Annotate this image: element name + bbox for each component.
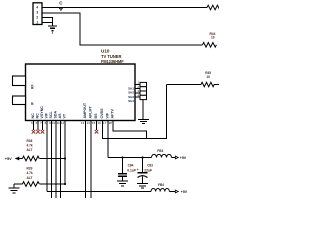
svg-text:FM1236HMF: FM1236HMF <box>101 59 124 64</box>
svg-text:18: 18 <box>108 121 112 125</box>
svg-text:4.7k: 4.7k <box>27 144 33 148</box>
SH pin stubs and numbers 1 2 3 4 <box>135 84 140 97</box>
ground (C84) <box>117 181 128 186</box>
svg-text:SCL: SCL <box>49 111 53 119</box>
bottom-right pin name labels inside IC <box>83 102 115 118</box>
svg-text:C83: C83 <box>147 164 153 168</box>
node junction C83 <box>141 156 143 158</box>
node junction C84 <box>121 156 123 158</box>
svg-text:R39: R39 <box>27 167 33 171</box>
svg-text:10: 10 <box>211 36 215 40</box>
svg-text:0.1uF: 0.1uF <box>127 168 136 172</box>
svg-text:C84: C84 <box>128 163 134 167</box>
svg-text:13: 13 <box>81 121 85 125</box>
wire +5V bottom rail <box>47 191 151 193</box>
wire connector pins 2,1 to ground <box>42 18 53 26</box>
svg-text:SH4: SH4 <box>128 99 134 103</box>
wire from connector pin 3 to resistor R44 <box>43 13 203 45</box>
svg-text:SDA: SDA <box>53 111 57 119</box>
wire pin18 jog to R45 net <box>113 121 147 139</box>
svg-text:U10: U10 <box>101 49 110 54</box>
pin stubs with no-connect (left three) <box>34 121 43 130</box>
svg-text:1: 1 <box>36 21 38 25</box>
svg-text:FB4: FB4 <box>158 183 164 187</box>
wire pin12 down to R39 row <box>64 121 66 185</box>
svg-text:2: 2 <box>36 16 38 20</box>
svg-text:AFTV: AFTV <box>110 109 114 119</box>
svg-text:4.7k: 4.7k <box>27 171 33 175</box>
svg-text:14: 14 <box>86 121 90 125</box>
wire pin15 stub to X <box>96 121 98 130</box>
bottom pin number digits <box>31 121 112 125</box>
ground (SH shield) <box>138 119 149 123</box>
no-connect X marks (red) <box>32 130 45 134</box>
net label C <box>59 1 63 11</box>
resistor R45 with wire <box>167 71 220 87</box>
svg-text:NC: NC <box>35 113 39 119</box>
svg-text:+: + <box>137 168 139 172</box>
svg-text:17: 17 <box>103 121 107 125</box>
wire pin9 down <box>51 121 53 199</box>
wire pin13 down <box>85 121 87 199</box>
svg-text:FB3: FB3 <box>157 149 163 153</box>
ground (connector) <box>48 26 57 33</box>
inductor FB4 <box>151 183 188 194</box>
pin box IF (left) <box>13 96 35 105</box>
bottom-left pin name labels inside IC <box>31 106 67 119</box>
svg-text:VIF: VIF <box>44 112 48 118</box>
ground (R39 left) <box>9 184 20 193</box>
svg-text:22uF: 22uF <box>144 169 152 173</box>
svg-text:VIF: VIF <box>105 112 109 118</box>
svg-text:BS: BS <box>94 113 98 119</box>
wire pin16 jog to R45 net <box>103 85 167 139</box>
svg-text:ALT: ALT <box>27 176 33 180</box>
SH shield pin boxes <box>140 82 147 99</box>
connector J1 <box>33 3 42 25</box>
ground (C83) <box>137 184 148 189</box>
wire pin10 down <box>55 121 57 199</box>
wire net C from connector pin 4 to resistor top right <box>43 7 208 9</box>
svg-text:RF: RF <box>31 84 35 89</box>
svg-text:12: 12 <box>61 121 65 125</box>
svg-text:+5V: +5V <box>180 156 187 160</box>
wire pin11 down <box>60 121 62 199</box>
wire pin14 down <box>90 121 92 199</box>
inductor FB3 <box>152 149 187 160</box>
resistor R39 row: ground pull-down <box>14 167 66 187</box>
svg-text:CVBS: CVBS <box>100 108 104 119</box>
pins SH1-SH4 labels inside IC <box>128 86 134 103</box>
svg-text:3: 3 <box>36 11 38 15</box>
svg-text:15: 15 <box>92 121 96 125</box>
svg-text:AS: AS <box>58 113 62 119</box>
svg-text:+5V: +5V <box>181 190 188 194</box>
svg-text:AMPOUT: AMPOUT <box>83 102 87 118</box>
svg-text:IF: IF <box>31 102 35 105</box>
svg-text:AFLIFT: AFLIFT <box>88 105 92 118</box>
wire pin8 to +5V rail <box>46 121 48 192</box>
wire pin SCL/I2C verticals going down <box>47 121 65 199</box>
svg-text:11: 11 <box>57 121 60 125</box>
power arrow left <box>15 157 20 161</box>
svg-text:NC: NC <box>31 113 35 119</box>
wire decoupling rail to FB3 <box>108 157 152 159</box>
IC U10 TV TUNER FM1236HMF body <box>26 64 136 121</box>
wire pin17 to decoupling rail <box>107 121 109 158</box>
svg-text:VT: VT <box>62 113 66 118</box>
svg-text:10: 10 <box>52 121 56 125</box>
wire SH to ground <box>142 100 144 119</box>
svg-text:VSYNC: VSYNC <box>40 106 44 119</box>
capacitor C83 (polarized) <box>137 158 154 184</box>
svg-text:16: 16 <box>97 121 101 125</box>
svg-text:R36: R36 <box>27 139 33 143</box>
resistor R43 (top right, clipped at edge) <box>207 5 221 10</box>
pin box RF (left) <box>13 76 35 89</box>
resistor R36 row: +5V pull-up <box>5 139 66 161</box>
svg-text:4: 4 <box>36 6 38 10</box>
resistor R44 <box>203 32 217 47</box>
svg-text:+5V: +5V <box>5 157 12 161</box>
wire right-group pin verticals <box>86 85 167 199</box>
capacitor C84 <box>118 158 136 181</box>
svg-text:ALT: ALT <box>27 148 33 152</box>
no-connect X (pin 15, red) <box>95 130 99 134</box>
U10 reference text <box>101 49 124 65</box>
svg-text:10: 10 <box>207 75 211 79</box>
